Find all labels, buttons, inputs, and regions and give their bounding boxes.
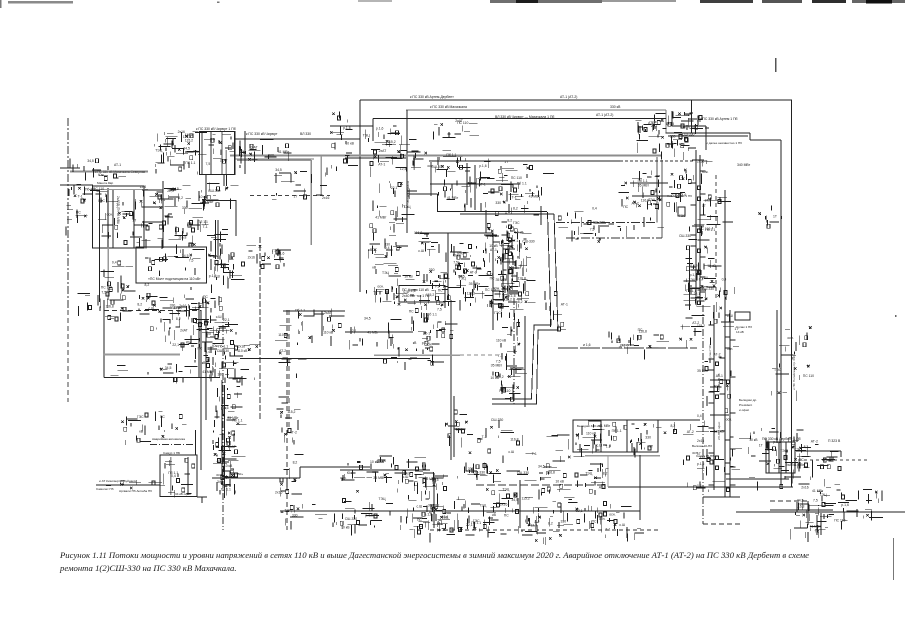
cluster row y231 right-center bbox=[574, 223, 626, 243]
wire y485 into Derbent bbox=[726, 478, 789, 480]
svg-text:116,8: 116,8 bbox=[414, 231, 422, 235]
cluster x655 y185 bbox=[633, 171, 685, 213]
svg-text:330: 330 bbox=[495, 201, 501, 205]
svg-text:с.Ш: с.Ш bbox=[418, 249, 424, 253]
svg-text:34,5: 34,5 bbox=[275, 168, 282, 172]
svg-text:0,4: 0,4 bbox=[722, 278, 727, 282]
cluster tile F low bbox=[448, 420, 514, 446]
cluster center y283-300 bbox=[435, 281, 518, 311]
svg-text:осн.: осн. bbox=[787, 336, 793, 340]
svg-text:р.1,6: р.1,6 bbox=[508, 294, 516, 298]
svg-text:АТ-1: АТ-1 bbox=[490, 248, 497, 252]
svg-text:1Т: 1Т bbox=[735, 327, 739, 331]
svg-text:115,2: 115,2 bbox=[689, 264, 697, 268]
svg-text:ПС: ПС bbox=[438, 289, 443, 293]
svg-text:и офис: и офис bbox=[739, 408, 750, 412]
scanner dot x218 bbox=[217, 2, 220, 4]
svg-text:СШ-330: СШ-330 bbox=[473, 470, 485, 474]
svg-text:кВ: кВ bbox=[139, 429, 143, 433]
wire y233 bbox=[415, 232, 493, 234]
svg-text:0,4: 0,4 bbox=[699, 277, 704, 281]
svg-text:8,2: 8,2 bbox=[178, 196, 183, 200]
svg-text:22,1: 22,1 bbox=[350, 329, 357, 333]
wire y460 dash right bbox=[798, 459, 870, 461]
svg-text:осн.: осн. bbox=[216, 473, 222, 477]
chain bottom ties bbox=[492, 398, 531, 400]
bottom center chain y470 bbox=[340, 469, 430, 471]
wire y184 bbox=[430, 183, 520, 185]
cluster right labels y280-300 bbox=[696, 285, 727, 304]
wire y161 bbox=[429, 160, 620, 162]
svg-text:к ПС 330 кВ Чирюрт: к ПС 330 кВ Чирюрт bbox=[246, 132, 278, 136]
svg-text:7,5: 7,5 bbox=[590, 227, 595, 231]
svg-text:Велком 10-Пб: Велком 10-Пб bbox=[692, 444, 712, 448]
vertical x445 stub bbox=[444, 290, 446, 308]
chain column upper part bbox=[500, 226, 523, 301]
wire top third bbox=[373, 118, 666, 120]
scanner edge bar bbox=[812, 0, 846, 3]
svg-text:р.1,6: р.1,6 bbox=[479, 164, 487, 168]
long wire y348 bbox=[558, 347, 697, 349]
ladder on right bus upper bbox=[691, 160, 706, 305]
svg-text:АТ-1: АТ-1 bbox=[378, 163, 385, 167]
svg-text:34,5: 34,5 bbox=[432, 478, 439, 482]
transformer pair left bbox=[637, 122, 661, 153]
cluster right y240 bbox=[758, 205, 781, 228]
svg-text:115,2: 115,2 bbox=[185, 138, 193, 142]
svg-text:АТ-1: АТ-1 bbox=[217, 459, 224, 463]
cluster ticks x150 bbox=[140, 190, 174, 249]
vertical dashdot x223 bbox=[222, 313, 224, 530]
bottom chain y485 left bbox=[96, 484, 160, 486]
cluster at rect right bbox=[208, 253, 245, 289]
svg-text:З5 МВт: З5 МВт bbox=[491, 364, 503, 368]
svg-text:с.Ш: с.Ш bbox=[148, 306, 154, 310]
left chain vertical x206 bbox=[205, 300, 207, 420]
svg-text:осн.: осн. bbox=[726, 418, 732, 422]
svg-text:34,5: 34,5 bbox=[217, 480, 224, 484]
cluster in box bbox=[163, 458, 194, 497]
svg-text:115,2: 115,2 bbox=[522, 497, 530, 501]
cluster Kizilyurt east bbox=[299, 309, 345, 347]
svg-text:34,5: 34,5 bbox=[182, 254, 189, 258]
wire vertical x360 bbox=[359, 100, 361, 292]
svg-text:Юж.: Юж. bbox=[823, 458, 830, 462]
cluster x340-430 y460-530 bbox=[342, 460, 436, 538]
corner x437 drop bbox=[437, 194, 439, 212]
cluster y310 row bbox=[105, 306, 209, 323]
gray drop x414 bbox=[413, 156, 415, 170]
gray vertical x321 bbox=[320, 156, 322, 196]
svg-text:0,4: 0,4 bbox=[697, 414, 702, 418]
svg-text:22,1: 22,1 bbox=[619, 346, 626, 350]
vertical dashdot x514 bbox=[513, 298, 515, 404]
svg-text:12,4: 12,4 bbox=[140, 185, 147, 189]
svg-text:1Т: 1Т bbox=[649, 444, 653, 448]
svg-text:ТЭЦ: ТЭЦ bbox=[193, 150, 201, 154]
svg-text:АТ-2: АТ-2 bbox=[279, 349, 286, 353]
svg-text:ТЭЦ: ТЭЦ bbox=[502, 488, 510, 492]
svg-text:330: 330 bbox=[561, 520, 567, 524]
clusters on y485 bbox=[486, 482, 517, 504]
svg-text:р.1,6: р.1,6 bbox=[376, 127, 384, 131]
svg-text:ПС: ПС bbox=[504, 514, 509, 518]
svg-text:110 кВ: 110 кВ bbox=[222, 464, 233, 468]
clusters on x287 bbox=[275, 326, 306, 378]
cluster labels y150-160 bbox=[233, 140, 292, 162]
svg-text:З5 МВт: З5 МВт bbox=[638, 184, 650, 188]
svg-text:Пб 1.1: Пб 1.1 bbox=[221, 488, 231, 492]
cluster on y118 wire bbox=[434, 123, 480, 139]
svg-text:СШ-330: СШ-330 bbox=[671, 194, 683, 198]
vertical x703 lower dashdot bbox=[702, 305, 704, 524]
scanner left edge tick bbox=[0, 0, 2, 8]
svg-text:41 МВт: 41 МВт bbox=[599, 424, 611, 428]
chain y511 clusters bbox=[281, 504, 327, 530]
drop x454 to chain bbox=[453, 396, 455, 457]
wire to x750 bbox=[666, 132, 750, 134]
svg-text:ГЭС: ГЭС bbox=[513, 221, 520, 225]
cluster p14 topleft bbox=[366, 130, 410, 165]
gray drop from Belidzhi bbox=[607, 456, 609, 487]
cluster labels y355 bbox=[384, 347, 445, 370]
vertical x222 solid lower bbox=[221, 380, 223, 485]
wire left small bbox=[60, 184, 93, 186]
box right edge strong bbox=[200, 310, 202, 470]
rect upper (136,247)-(206,283) bbox=[136, 247, 207, 283]
svg-text:2x16: 2x16 bbox=[500, 503, 507, 507]
cluster y157-236 right box bbox=[619, 171, 665, 231]
svg-text:330: 330 bbox=[182, 206, 188, 210]
cluster bottom right2 bbox=[790, 521, 828, 541]
svg-text:116,8: 116,8 bbox=[106, 304, 114, 308]
svg-text:President: President bbox=[739, 403, 752, 407]
svg-text:ремонта 1(2)СШ-330 на ПС 330: ремонта 1(2)СШ-330 на ПС 330 кВ Махачкал… bbox=[59, 563, 237, 573]
svg-text:ГЭС: ГЭС bbox=[679, 214, 686, 218]
svg-text:41 МВт: 41 МВт bbox=[202, 370, 214, 374]
small box top center bbox=[457, 181, 476, 193]
cluster x505 y262 bbox=[484, 235, 531, 295]
svg-text:41 МВт: 41 МВт bbox=[375, 215, 387, 219]
left chain x340 bbox=[330, 112, 358, 172]
cluster x380 y235 bbox=[368, 219, 406, 258]
svg-text:1Т: 1Т bbox=[504, 160, 508, 164]
wires from left box to x163 bbox=[142, 189, 163, 191]
svg-text:ГЭС: ГЭС bbox=[775, 368, 782, 372]
svg-text:10 кВ: 10 кВ bbox=[404, 275, 413, 279]
vertical x541 bbox=[540, 206, 542, 225]
svg-text:116,8: 116,8 bbox=[639, 330, 647, 334]
scanner edge bar bbox=[852, 0, 905, 3]
bus x434 bottom bbox=[433, 473, 435, 528]
svg-text:Пб 1.1: Пб 1.1 bbox=[471, 521, 481, 525]
svg-text:СШ-330: СШ-330 bbox=[208, 189, 220, 193]
ladder labels chain upper bbox=[502, 222, 517, 289]
tie y126 bbox=[330, 125, 373, 127]
small box right x677 bbox=[678, 207, 685, 216]
svg-text:8,2: 8,2 bbox=[603, 472, 608, 476]
svg-text:ТЭЦ: ТЭЦ bbox=[585, 472, 593, 476]
cluster below block bbox=[199, 183, 239, 210]
cluster on x206 chain bbox=[191, 296, 230, 367]
svg-text:АТ-1 (АТ-2): АТ-1 (АТ-2) bbox=[596, 113, 613, 117]
svg-text:41 МВт: 41 МВт bbox=[810, 525, 822, 529]
svg-text:34,5: 34,5 bbox=[511, 498, 518, 502]
svg-text:ПС: ПС bbox=[203, 295, 208, 299]
svg-text:СШ-330: СШ-330 bbox=[491, 418, 503, 422]
svg-text:осн.: осн. bbox=[107, 213, 113, 217]
svg-text:7,5: 7,5 bbox=[206, 162, 211, 166]
svg-text:АТ-2: АТ-2 bbox=[632, 202, 639, 206]
svg-text:Рисунок 1.11 Потоки мощности и: Рисунок 1.11 Потоки мощности и уровни на… bbox=[59, 550, 809, 560]
staircase pair (skewed) bbox=[492, 212, 551, 399]
svg-text:34,5: 34,5 bbox=[364, 317, 371, 321]
steps to bus x434 bbox=[423, 472, 434, 474]
box top dashed bbox=[104, 310, 201, 312]
chain y470 clusters bbox=[343, 463, 379, 481]
cluster small top x360-430 bbox=[370, 126, 420, 177]
svg-text:22,1: 22,1 bbox=[576, 509, 583, 513]
svg-text:330 кВ: 330 кВ bbox=[610, 105, 621, 109]
bus pair x503 bbox=[502, 240, 504, 300]
svg-text:р.1,6: р.1,6 bbox=[343, 126, 351, 130]
svg-text:1Т: 1Т bbox=[99, 200, 103, 204]
cluster right x694-700 bus top bbox=[695, 150, 697, 305]
svg-text:кВ: кВ bbox=[372, 266, 376, 270]
svg-text:к ПС 330 кВ Чирюрт 1 Пб: к ПС 330 кВ Чирюрт 1 Пб bbox=[196, 127, 236, 131]
svg-text:осн.: осн. bbox=[268, 153, 274, 157]
svg-text:116,8: 116,8 bbox=[518, 277, 526, 281]
wire y195 dashed bbox=[250, 195, 330, 197]
svg-text:Юж.: Юж. bbox=[212, 344, 219, 348]
svg-text:2x16: 2x16 bbox=[697, 160, 704, 164]
svg-text:р.1,6: р.1,6 bbox=[690, 273, 698, 277]
wire y487 bbox=[608, 486, 793, 488]
left box upper ticks bbox=[98, 194, 148, 245]
svg-text:ТЭЦ: ТЭЦ bbox=[379, 497, 387, 501]
gray tie y189 bbox=[89, 189, 148, 191]
svg-text:Т-1: Т-1 bbox=[605, 528, 610, 532]
svg-text:10 кВ: 10 кВ bbox=[173, 306, 182, 310]
ticks on x245 bbox=[240, 140, 261, 168]
wire bus y139 bbox=[235, 138, 360, 140]
long center vertical x260 bbox=[259, 237, 261, 420]
svg-text:Юж.: Юж. bbox=[684, 113, 691, 117]
cluster below Tarnair bbox=[495, 187, 541, 216]
svg-text:ПС 110: ПС 110 bbox=[699, 227, 710, 231]
svg-text:СШ-330: СШ-330 bbox=[679, 234, 691, 238]
cluster below rect bbox=[140, 284, 215, 308]
svg-text:к ПС 330 кВ Артем-Дербент: к ПС 330 кВ Артем-Дербент bbox=[410, 95, 454, 99]
svg-text:З5 МВт: З5 МВт bbox=[469, 282, 481, 286]
svg-text:Пб 1.1: Пб 1.1 bbox=[686, 289, 696, 293]
svg-text:З5 МВт: З5 МВт bbox=[697, 369, 709, 373]
wire rows y183/y196 bbox=[630, 182, 668, 184]
svg-text:Белиджи др.: Белиджи др. bbox=[739, 398, 757, 402]
cluster x370 y332 bbox=[349, 320, 401, 350]
svg-text:ПС: ПС bbox=[592, 520, 597, 524]
vertical x163 bbox=[162, 181, 164, 248]
left chain vertical x199 bbox=[198, 302, 200, 378]
svg-text:110 кВ: 110 кВ bbox=[278, 333, 289, 337]
svg-text:осн.: осн. bbox=[609, 513, 615, 517]
svg-text:330: 330 bbox=[645, 436, 651, 440]
svg-text:10 кВ: 10 кВ bbox=[555, 479, 564, 483]
cluster row y298 left bbox=[78, 289, 125, 316]
svg-text:СШ-330: СШ-330 bbox=[517, 471, 529, 475]
svg-text:2хАТ: 2хАТ bbox=[324, 311, 332, 315]
cluster left of channel y470 bbox=[683, 456, 725, 492]
step x750 bbox=[749, 133, 751, 140]
gray bus y171 left bbox=[70, 170, 148, 172]
wire x486 drop bbox=[485, 210, 487, 233]
svg-text:Машта 4Ер: Машта 4Ер bbox=[97, 181, 114, 185]
label frame box bbox=[399, 286, 445, 303]
cluster y430-470 center bbox=[461, 435, 584, 483]
svg-text:ПС 110: ПС 110 bbox=[457, 121, 468, 125]
cluster bottom center bbox=[418, 496, 527, 542]
right bus x245 bbox=[244, 131, 246, 174]
vertical x777 bbox=[776, 310, 778, 443]
cluster right of left box bbox=[272, 167, 327, 199]
svg-text:2x16: 2x16 bbox=[322, 196, 329, 200]
svg-text:АТ-1: АТ-1 bbox=[561, 303, 568, 307]
cluster left of chiryurt bbox=[161, 132, 207, 171]
gray bus y455 right bbox=[585, 455, 660, 457]
dashdot wire y444 bbox=[150, 443, 196, 445]
svg-text:осн.: осн. bbox=[599, 517, 605, 521]
svg-text:Юж.: Юж. bbox=[347, 471, 354, 475]
svg-text:и далее неизвестно 1 Пб: и далее неизвестно 1 Пб bbox=[706, 141, 742, 145]
dashdot branch y222 bbox=[556, 222, 657, 224]
svg-text:0,4: 0,4 bbox=[112, 261, 117, 265]
bus gray y155 bbox=[230, 155, 661, 157]
svg-text:8,2: 8,2 bbox=[137, 303, 142, 307]
Belidzhi box internals bbox=[600, 420, 602, 452]
svg-text:116,8: 116,8 bbox=[185, 133, 193, 137]
ladder right channel lower bbox=[709, 315, 731, 485]
svg-text:Аварийная автоматика: Аварийная автоматика bbox=[152, 437, 185, 441]
svg-text:41 МВт: 41 МВт bbox=[367, 331, 379, 335]
svg-text:ГЭС: ГЭС bbox=[272, 249, 279, 253]
svg-text:330: 330 bbox=[218, 372, 224, 376]
svg-text:22,1: 22,1 bbox=[223, 318, 230, 322]
svg-text:СШ-330: СШ-330 bbox=[431, 165, 443, 169]
svg-text:22,1: 22,1 bbox=[391, 186, 398, 190]
cluster tile H topleft bbox=[609, 332, 669, 360]
svg-text:АТ-2: АТ-2 bbox=[599, 486, 606, 490]
ticks on staircase pair bbox=[545, 291, 566, 331]
svg-text:АТ-2: АТ-2 bbox=[713, 353, 720, 357]
svg-text:110 кВ: 110 кВ bbox=[323, 331, 334, 335]
cluster around Derbent bbox=[749, 428, 807, 490]
wire y510 bbox=[770, 509, 833, 511]
svg-text:ТЭЦ: ТЭЦ bbox=[285, 509, 293, 513]
cluster on x434 bus bbox=[422, 475, 450, 527]
svg-text:ПС: ПС bbox=[76, 211, 81, 215]
svg-text:р.1,6: р.1,6 bbox=[697, 462, 704, 466]
bottom right chain y512 bbox=[736, 511, 905, 513]
gray verticals x657/x662 bbox=[656, 157, 658, 223]
svg-text:340 МВт: 340 МВт bbox=[737, 163, 751, 167]
cluster mid 230-300 bbox=[234, 245, 292, 270]
mark right middle bbox=[895, 315, 897, 317]
svg-text:Пб 1.1: Пб 1.1 bbox=[446, 153, 456, 157]
svg-text:Юж.: Юж. bbox=[98, 173, 105, 177]
svg-text:116,8: 116,8 bbox=[178, 236, 186, 240]
svg-text:осн.: осн. bbox=[692, 451, 698, 455]
svg-text:0,4: 0,4 bbox=[385, 246, 390, 250]
wire drop from Chiryurt x206 bbox=[205, 175, 207, 201]
svg-text:41 МВт: 41 МВт bbox=[529, 194, 541, 198]
drops below left box bbox=[99, 248, 101, 302]
svg-text:ГЭС: ГЭС bbox=[137, 415, 144, 419]
svg-text:Т-1: Т-1 bbox=[532, 452, 537, 456]
step to y467 bbox=[299, 467, 301, 478]
svg-text:Самур 1 ПБ: Самур 1 ПБ bbox=[163, 451, 180, 455]
svg-text:ТЭЦ: ТЭЦ bbox=[382, 271, 390, 275]
drops on y485 chain bbox=[106, 480, 165, 489]
cluster label row below box bbox=[150, 304, 238, 335]
cluster y300 center bbox=[471, 290, 530, 323]
wire x236 drop bbox=[235, 200, 237, 236]
gray bar in box bbox=[170, 457, 172, 495]
scanner edge bar bbox=[358, 0, 392, 2]
svg-text:8,2: 8,2 bbox=[518, 300, 523, 304]
svg-text:осн.: осн. bbox=[405, 472, 411, 476]
svg-text:ВЛ 330: ВЛ 330 bbox=[300, 132, 311, 136]
svg-text:Пб 1.1: Пб 1.1 bbox=[85, 187, 95, 191]
svg-text:с.Ш: с.Ш bbox=[597, 444, 603, 448]
cluster center-mid y330-360 bbox=[165, 327, 243, 369]
svg-text:ТЭЦ: ТЭЦ bbox=[404, 205, 412, 209]
long center vertical x289 bbox=[288, 310, 290, 430]
svg-text:АТ-2: АТ-2 bbox=[811, 439, 818, 443]
svg-text:СШ-330: СШ-330 bbox=[593, 220, 605, 224]
svg-text:115,2: 115,2 bbox=[287, 410, 295, 414]
wire y358 bbox=[240, 358, 430, 360]
svg-text:Т-1: Т-1 bbox=[482, 435, 487, 439]
cluster center upper2 bbox=[484, 235, 535, 309]
svg-text:41 МВт: 41 МВт bbox=[793, 463, 805, 467]
svg-text:АТ-1 (АТ-2): АТ-1 (АТ-2) bbox=[560, 95, 577, 99]
svg-text:ТЭЦ: ТЭЦ bbox=[363, 133, 371, 137]
svg-text:8,2: 8,2 bbox=[293, 461, 298, 465]
svg-text:115,2: 115,2 bbox=[426, 293, 434, 297]
cluster x505 y235 bbox=[485, 224, 531, 254]
wire 330kV top loop bbox=[360, 99, 792, 101]
cluster bottom of box bbox=[111, 364, 214, 384]
ladder right channel lower2 bbox=[720, 322, 736, 492]
svg-text:Пб 1.1: Пб 1.1 bbox=[427, 312, 437, 316]
wire y140 bbox=[750, 139, 781, 141]
svg-text:к ПС 330 кВ Махачкала: к ПС 330 кВ Махачкала bbox=[430, 105, 467, 109]
svg-text:ТЭЦ: ТЭЦ bbox=[155, 148, 163, 152]
svg-text:с.Ш: с.Ш bbox=[206, 331, 212, 335]
wire y200 step bbox=[206, 200, 236, 202]
svg-text:З5 МВт: З5 МВт bbox=[202, 200, 214, 204]
svg-text:22,1: 22,1 bbox=[172, 343, 179, 347]
cluster y424 labels bbox=[647, 422, 709, 434]
svg-text:10 кВ: 10 кВ bbox=[749, 438, 758, 442]
cluster above Tarnair bbox=[411, 150, 451, 172]
wire top second (gray) bbox=[406, 109, 666, 111]
svg-text:Пб 1.1: Пб 1.1 bbox=[612, 429, 622, 433]
cluster right mid y300-430 bbox=[713, 305, 715, 490]
svg-text:110 кВ: 110 кВ bbox=[586, 432, 597, 436]
wire y354 gray bbox=[103, 354, 180, 356]
svg-text:22,1: 22,1 bbox=[167, 189, 174, 193]
